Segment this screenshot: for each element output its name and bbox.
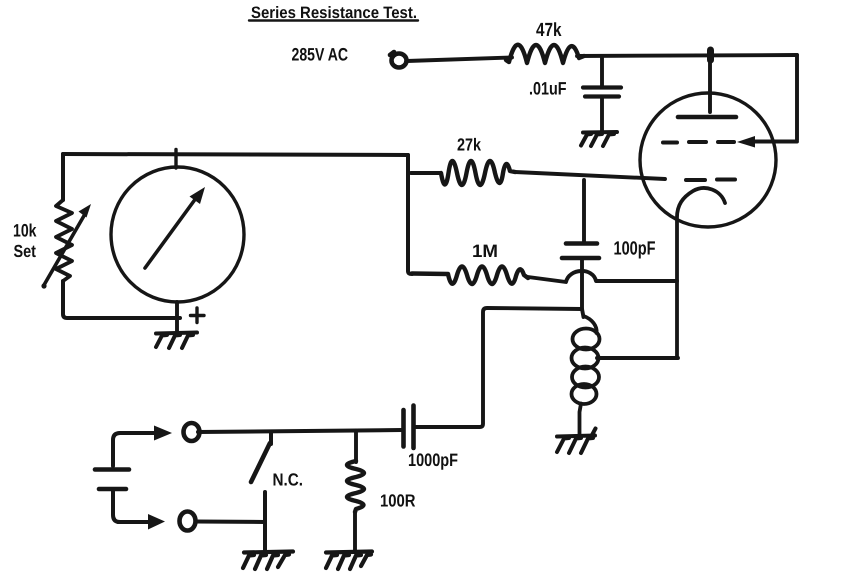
svg-text:1000pF: 1000pF <box>408 450 458 470</box>
inductor coil <box>572 316 600 435</box>
label 1000pF <box>408 450 458 470</box>
terminal input 285V AC <box>392 54 407 68</box>
meter body <box>111 167 244 302</box>
svg-text:Set: Set <box>14 241 37 261</box>
wire battery left vertical upper <box>113 433 120 466</box>
title: Series Resistance Test. <box>251 4 417 22</box>
wire bottom main <box>198 430 402 432</box>
terminal lower probe <box>180 512 196 531</box>
wire battery left vertical lower <box>113 490 120 522</box>
wire 100pF lead down to coil node <box>582 259 584 317</box>
meter needle <box>145 194 199 268</box>
ground below 100R <box>326 552 372 570</box>
junction dot plate node <box>707 50 714 60</box>
wire node to 1000pF branch <box>414 308 582 427</box>
terminal upper probe <box>184 423 200 441</box>
resistor 47k <box>506 45 584 63</box>
meter bottom lead <box>175 302 179 333</box>
potentiometer 10k Set (vertical zigzag) <box>56 200 72 281</box>
meter needle arrowhead <box>190 187 206 204</box>
switch N.C. blade <box>251 443 270 482</box>
ground below .01uF <box>581 132 617 146</box>
label .01uF <box>529 79 567 99</box>
wire top-left horizontal <box>63 154 408 155</box>
switch N.C. bottom contact <box>263 492 267 552</box>
resistor 27k <box>441 161 515 185</box>
wire 27k to tube cathode <box>515 172 665 179</box>
ground below switch <box>243 552 293 570</box>
svg-text:100pF: 100pF <box>614 239 656 260</box>
wire right-side drop to grid <box>753 55 797 142</box>
wire left vertical lower and bottom to meter ground <box>63 281 180 318</box>
label 1M <box>472 241 498 261</box>
arrow to lower terminal <box>118 520 149 524</box>
wire input to 47k <box>407 58 512 62</box>
battery <box>95 467 129 472</box>
tube cathode (dashed) <box>686 178 735 183</box>
svg-text:N.C.: N.C. <box>273 470 304 490</box>
ground below meter <box>156 333 197 349</box>
switch N.C. top contact <box>269 433 273 444</box>
label Set <box>14 241 37 261</box>
tube plate <box>678 115 736 120</box>
wire left vertical upper <box>61 154 65 200</box>
capacitor 100pF <box>566 241 597 246</box>
label 47k <box>536 20 562 41</box>
capacitor 1000pF <box>401 410 406 447</box>
tube heater curve and lead down <box>677 188 725 358</box>
wire branch to 27k <box>411 171 440 175</box>
label 100R <box>380 491 416 511</box>
meter top lead <box>174 150 177 169</box>
svg-text:10k: 10k <box>13 221 37 241</box>
label + <box>191 308 205 323</box>
wire branch to .01uF <box>600 57 604 87</box>
wire branch down to 100pF <box>582 180 586 243</box>
potentiometer arrow <box>44 214 85 285</box>
label 100pF <box>614 239 656 260</box>
capacitor .01uF <box>583 85 621 89</box>
label 27k <box>457 135 481 155</box>
wire right vertical x408 <box>408 155 412 274</box>
svg-text:285V AC: 285V AC <box>292 45 349 65</box>
wire 47k to top-right corner <box>577 55 797 56</box>
arrow to upper terminal <box>120 431 155 435</box>
svg-text:.01uF: .01uF <box>529 79 567 99</box>
wire coil tap to heater vertical <box>597 356 678 360</box>
ground below coil <box>557 429 596 454</box>
tube envelope <box>640 93 776 227</box>
label 10k <box>13 221 37 241</box>
label 285V AC <box>292 45 349 65</box>
tube grid (dashed) <box>663 140 734 145</box>
resistor 100R (vertical zigzag) <box>347 461 364 512</box>
grid arrowhead <box>737 136 755 148</box>
resistor 100R bottom lead <box>353 512 357 552</box>
resistor 1M <box>412 267 528 285</box>
wire .01uF to ground <box>600 97 604 132</box>
wire 1M to heater node with hop over capacitor lead <box>528 271 677 282</box>
svg-text:100R: 100R <box>380 491 416 511</box>
svg-text:1M: 1M <box>472 241 498 261</box>
svg-text:27k: 27k <box>457 135 481 155</box>
label N.C. <box>273 470 304 490</box>
svg-text:47k: 47k <box>536 20 562 41</box>
tube plate lead <box>708 54 712 112</box>
wire lower terminal to switch <box>196 520 265 525</box>
title underline <box>249 19 418 21</box>
resistor 100R top lead <box>354 431 358 462</box>
